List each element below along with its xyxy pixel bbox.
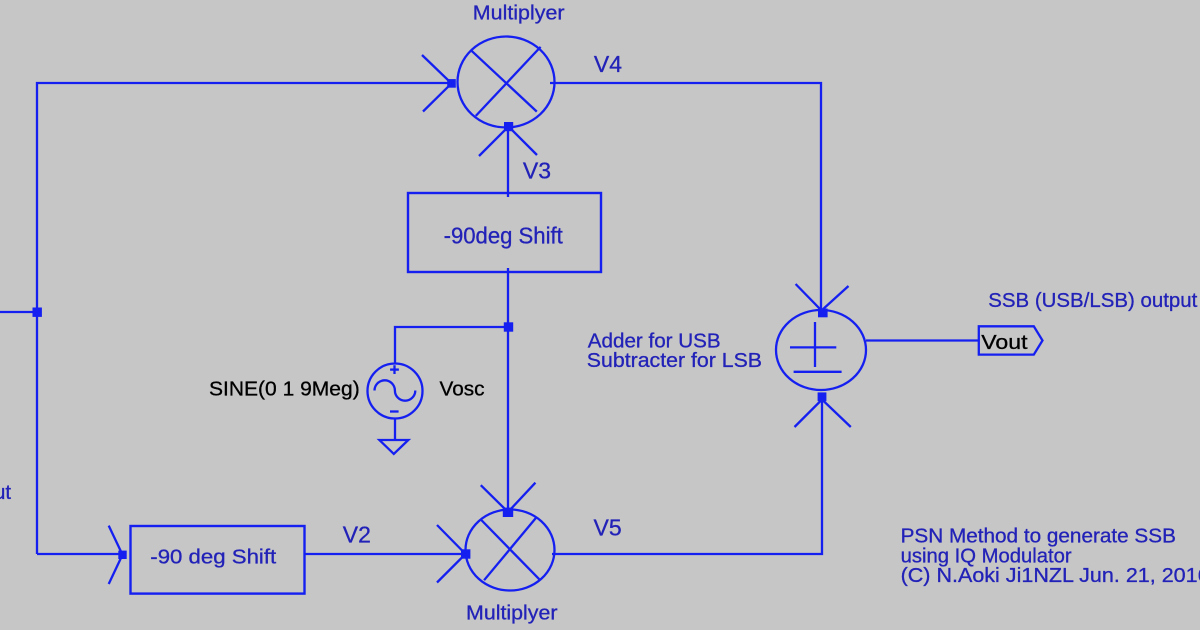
plus mark [393, 365, 395, 374]
wire shift box to bottom multiplier top pin [507, 268, 509, 512]
svg-text:using IQ Modulator: using IQ Modulator [901, 545, 1072, 567]
junction node left trunk [33, 308, 42, 317]
svg-text:Vosc: Vosc [440, 377, 485, 400]
wire adder output to Vout flag [866, 339, 979, 341]
pin square adder bottom [818, 392, 827, 401]
arrow into adder top pin [796, 284, 849, 311]
minus mark [390, 410, 399, 412]
junction node carrier [504, 322, 513, 331]
svg-text:Vout: Vout [981, 331, 1028, 354]
plus horizontal [790, 346, 836, 348]
pin square top mult left [447, 79, 456, 88]
svg-text:Multiplyer: Multiplyer [473, 3, 565, 25]
ground [379, 440, 408, 454]
arrow into top mult left pin [422, 55, 452, 112]
wire V4 top mult to adder [550, 83, 821, 311]
multiplier U-top [422, 37, 555, 157]
wire left vertical trunk [37, 83, 452, 554]
svg-text:V4: V4 [594, 51, 622, 77]
Vout flag [979, 326, 1043, 354]
svg-text:input: input [0, 482, 11, 504]
plus vertical [814, 322, 816, 367]
arrow into top mult bottom pin [479, 127, 537, 157]
arrow into adder bottom pin [795, 400, 851, 428]
wire Vosc to ground [394, 418, 396, 440]
wire input stub left [0, 311, 37, 313]
X stroke 1 [481, 520, 539, 580]
op circle top multiplier [458, 37, 555, 128]
pin square adder top [818, 309, 828, 318]
wire Vosc to carrier node [395, 327, 508, 364]
X stroke 1 [471, 50, 537, 112]
svg-text:V2: V2 [343, 522, 371, 548]
arrow into bottom mult top pin [481, 483, 536, 512]
pin square bottom mult top [503, 508, 513, 517]
sine wave [375, 380, 416, 400]
X stroke 2 [484, 517, 537, 580]
source circle [368, 364, 423, 419]
wire V2 shift box to bottom mult [305, 553, 466, 555]
pin square bottom mult left [461, 549, 470, 558]
voltage source Vosc [368, 364, 423, 419]
svg-text:V5: V5 [594, 514, 622, 540]
wire top mult bottom pin to shift box [507, 128, 509, 197]
op circle bottom multiplier [466, 510, 555, 591]
svg-text:SSB (USB/LSB) output: SSB (USB/LSB) output [988, 290, 1197, 312]
-90 deg shift box bottom [131, 526, 305, 594]
svg-text:PSN Method to generate SSB: PSN Method to generate SSB [901, 525, 1176, 547]
svg-text:(C) N.Aoki Ji1NZL Jun. 21, 201: (C) N.Aoki Ji1NZL Jun. 21, 2016 [901, 565, 1200, 587]
svg-text:SINE(0 1 9Meg): SINE(0 1 9Meg) [209, 377, 360, 400]
op circle adder [776, 310, 866, 390]
svg-text:V3: V3 [523, 158, 551, 184]
multiplier U-bottom [437, 483, 555, 591]
minus bar [794, 371, 842, 373]
X stroke 2 [476, 47, 541, 116]
pin square top mult bottom [504, 122, 513, 131]
-90deg shift box top [408, 193, 601, 272]
wire bottom-left to shift box [37, 553, 123, 555]
svg-text:Subtracter for LSB: Subtracter for LSB [587, 350, 762, 372]
arrow into bottom shift box [109, 526, 123, 584]
arrow into bottom mult left pin [437, 525, 466, 583]
svg-text:-90deg Shift: -90deg Shift [444, 223, 564, 249]
pin square bottom shift box [118, 551, 126, 559]
svg-text:-90 deg Shift: -90 deg Shift [150, 547, 276, 569]
wire V5 bottom mult to adder [552, 400, 822, 554]
svg-text:Multiplyer: Multiplyer [466, 602, 558, 624]
adder U3 [776, 284, 866, 427]
